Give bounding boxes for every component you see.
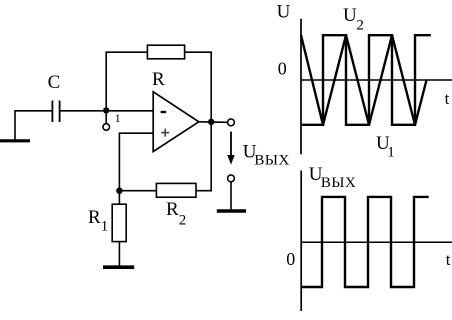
svg-text:t: t	[445, 89, 450, 108]
ground right	[217, 209, 246, 213]
wire feedback right	[185, 52, 212, 122]
wire op-amp output	[199, 121, 228, 124]
axis t top chart	[301, 79, 452, 81]
resistor R1	[112, 204, 126, 241]
svg-text:t: t	[446, 250, 451, 269]
wire junction to R2	[119, 190, 156, 192]
ground R1	[103, 265, 134, 269]
terminal lower open circle	[228, 175, 235, 182]
axis t bottom chart	[301, 241, 452, 243]
axis U bottom chart	[300, 171, 302, 312]
svg-text:U: U	[277, 2, 291, 23]
svg-text:R: R	[152, 69, 165, 90]
resistor R	[147, 45, 184, 59]
op-amp non-inverting input marker	[161, 129, 169, 137]
svg-text:U: U	[343, 5, 357, 26]
waveform U1 triangle	[301, 35, 427, 125]
node output dot	[208, 119, 214, 125]
wire feedback left	[106, 52, 147, 111]
svg-text:0: 0	[286, 249, 295, 269]
svg-text:1: 1	[115, 111, 121, 125]
op-amp U1	[153, 92, 199, 152]
waveform U2 square	[301, 35, 431, 125]
axis U top chart	[300, 19, 302, 154]
arrow Uout	[230, 132, 232, 156]
capacitor C	[52, 101, 59, 123]
wire R1 to ground	[118, 242, 120, 266]
svg-text:2: 2	[356, 18, 364, 34]
svg-text:1: 1	[387, 144, 395, 160]
node 1 junction dot	[103, 107, 109, 113]
waveform Uout square	[301, 197, 428, 287]
ground left	[0, 139, 30, 142]
terminal node 1 open circle	[103, 124, 110, 131]
wire lower terminal to ground	[230, 182, 232, 209]
svg-text:ВЫХ: ВЫХ	[254, 153, 289, 169]
svg-text:ВЫХ: ВЫХ	[321, 175, 356, 191]
wire non-inverting input	[119, 133, 153, 188]
wire input left	[15, 111, 52, 141]
op-amp inverting input marker	[161, 111, 167, 113]
wire junction to R1	[118, 191, 120, 205]
svg-text:R1: R1	[88, 207, 108, 234]
resistor R2	[156, 183, 196, 197]
terminal output open circle	[228, 119, 235, 126]
svg-text:R2: R2	[166, 199, 186, 228]
wire capacitor to inverting input	[60, 110, 154, 112]
wire output node to R2	[196, 122, 211, 191]
wire node 1 to terminal	[105, 111, 107, 124]
svg-text:0: 0	[278, 59, 287, 79]
node junction R1 R2 dot	[116, 188, 122, 194]
svg-text:C: C	[48, 72, 61, 93]
